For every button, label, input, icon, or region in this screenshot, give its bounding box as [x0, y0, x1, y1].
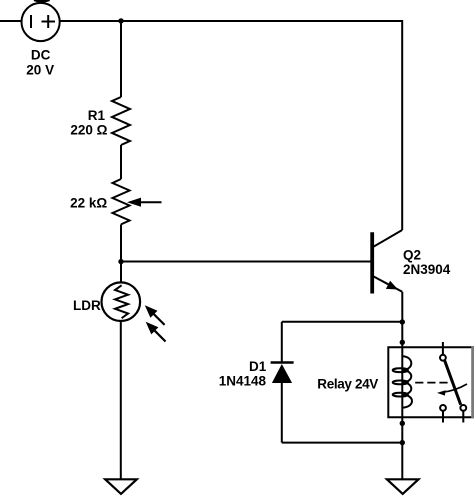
- svg-text:DC: DC: [31, 48, 51, 63]
- node (emitter/diode top): [400, 319, 405, 324]
- relay K1 (coil + SPDT switch): [388, 342, 474, 423]
- cropped blob above source: [34, 0, 50, 3]
- svg-text:Q2: Q2: [403, 248, 421, 263]
- svg-text:R1: R1: [88, 108, 106, 123]
- value label DC 20 V: [26, 48, 54, 78]
- wire (R1 to pot): [120, 145, 122, 179]
- wire (node to LDR): [120, 261, 122, 283]
- svg-text:20 V: 20 V: [26, 63, 54, 78]
- dashed link: [415, 382, 448, 384]
- voltage source V1 (DC 20 V): [21, 3, 59, 41]
- wire (left stub to V1): [0, 20, 21, 22]
- node (top junction): [118, 18, 123, 23]
- wire (diode bottom horizontal): [282, 442, 402, 444]
- ground (left): [105, 479, 137, 494]
- value label Q2 2N3904: [403, 248, 451, 278]
- photoresistor LDR: [102, 282, 166, 341]
- svg-text:22 kΩ: 22 kΩ: [70, 196, 107, 211]
- svg-text:1N4148: 1N4148: [219, 373, 267, 388]
- node (above relay): [400, 340, 405, 345]
- wire (pot to node): [120, 224, 122, 261]
- svg-text:LDR: LDR: [73, 298, 101, 313]
- node (below relay): [400, 421, 405, 426]
- switch arm: [445, 360, 461, 404]
- wire (diode top horizontal): [282, 321, 402, 323]
- diode D1: [271, 322, 294, 443]
- switch pin top: [442, 342, 444, 355]
- coil loops: [403, 356, 412, 370]
- value label D1 1N4148: [219, 359, 267, 389]
- transistor Q2: [372, 230, 402, 294]
- value label R1 220 ohm: [70, 108, 107, 138]
- svg-text:Relay 24V: Relay 24V: [317, 376, 378, 391]
- bottom contacts: [440, 405, 446, 411]
- potentiometer 22 kohm: [113, 179, 162, 224]
- wire (base wire): [121, 261, 372, 263]
- svg-text:2N3904: 2N3904: [403, 262, 451, 277]
- wire (LDR to ground): [120, 321, 122, 479]
- node (base branch): [118, 259, 123, 264]
- wire (top rail): [60, 21, 402, 230]
- curved arrow: [442, 384, 468, 392]
- wire (junction to R1): [120, 21, 122, 97]
- svg-text:D1: D1: [249, 359, 267, 374]
- svg-text:220 Ω: 220 Ω: [70, 123, 107, 138]
- wire (emitter down right rail): [401, 292, 403, 480]
- resistor R1: [112, 97, 130, 145]
- ground (right): [387, 479, 419, 494]
- node (diode bottom junction): [400, 440, 405, 445]
